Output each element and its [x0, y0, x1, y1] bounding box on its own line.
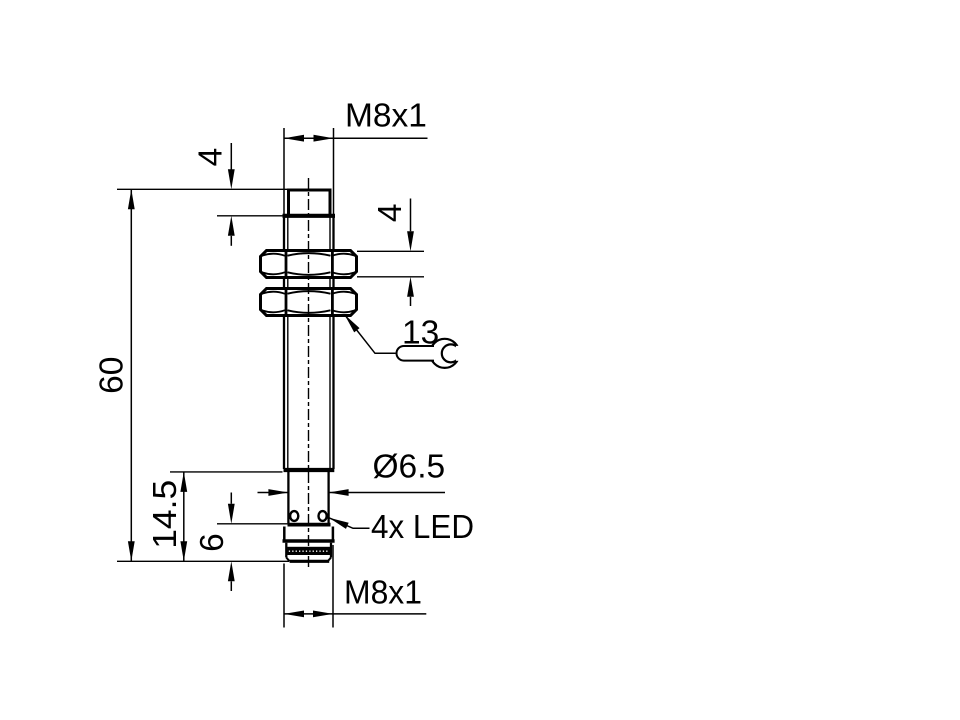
svg-text:M8x1: M8x1: [345, 98, 427, 135]
svg-text:4: 4: [192, 148, 229, 167]
svg-text:14.5: 14.5: [147, 480, 184, 549]
svg-text:4x LED: 4x LED: [371, 509, 474, 546]
svg-text:4: 4: [372, 203, 409, 222]
svg-text:Ø6.5: Ø6.5: [373, 449, 446, 486]
svg-text:M8x1: M8x1: [344, 575, 422, 612]
svg-text:60: 60: [93, 357, 130, 394]
svg-text:6: 6: [194, 533, 231, 552]
